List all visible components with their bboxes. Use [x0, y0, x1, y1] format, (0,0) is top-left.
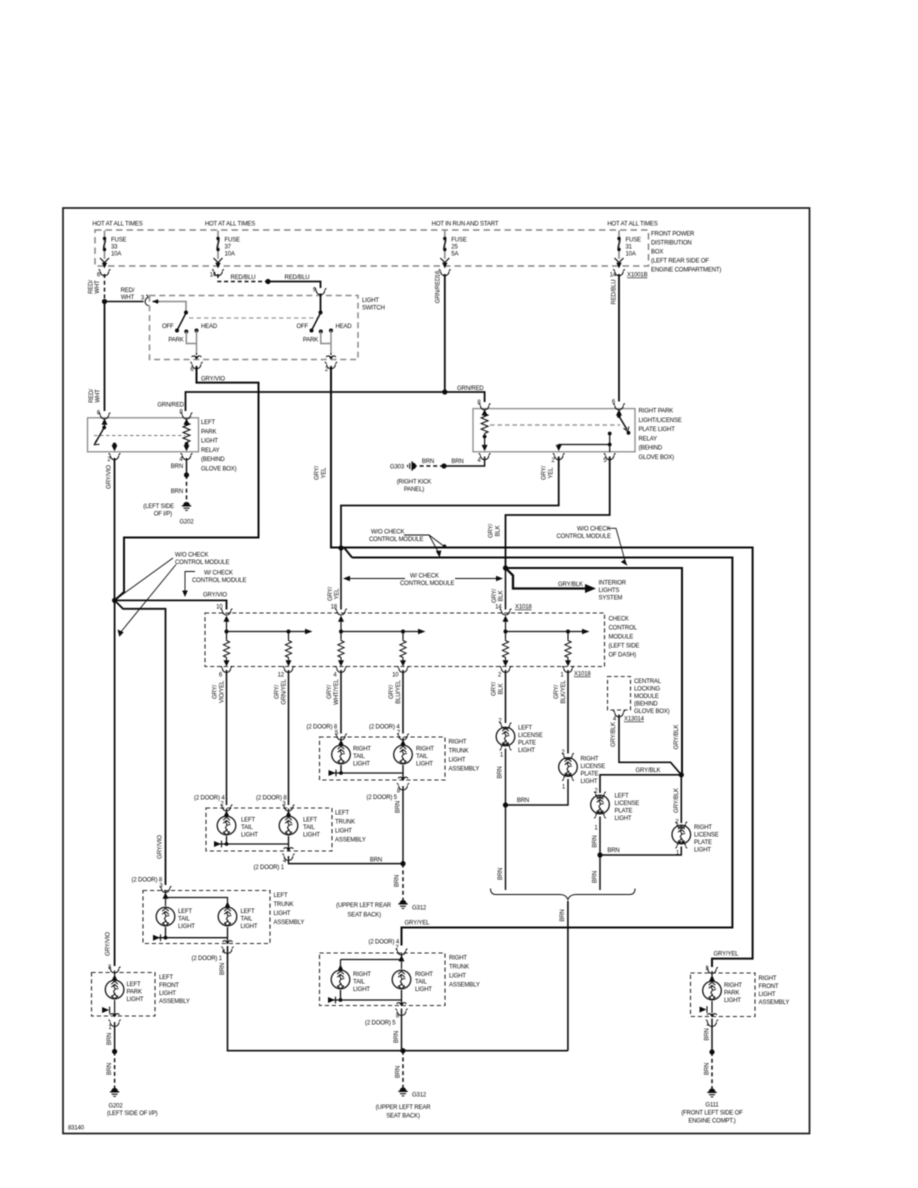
svg-text:GRY/BLK: GRY/BLK	[674, 788, 680, 813]
svg-text:FUSE: FUSE	[451, 238, 467, 244]
svg-text:(LEFT REAR SIDE OF: (LEFT REAR SIDE OF	[651, 259, 709, 265]
svg-text:TRUNK: TRUNK	[274, 902, 294, 908]
wire GRY/GRN/YEL column to left tail light	[288, 670, 290, 805]
wire GRY/VIO/YEL column to left tail light	[226, 670, 228, 805]
svg-text:RIGHT: RIGHT	[415, 972, 433, 978]
svg-text:BRN: BRN	[395, 875, 401, 887]
svg-text:LIGHT: LIGHT	[694, 848, 711, 854]
pin 10 check module	[216, 605, 232, 616]
svg-text:BRN: BRN	[422, 459, 434, 465]
pin 3 left trunk 2dr (2 DOOR 8)	[132, 878, 172, 893]
svg-text:G202: G202	[108, 1104, 123, 1110]
svg-text:TAIL: TAIL	[353, 754, 365, 760]
svg-text:G303: G303	[390, 465, 405, 471]
svg-text:(2 DOOR) 8: (2 DOOR) 8	[307, 725, 338, 731]
svg-text:TAIL: TAIL	[241, 917, 253, 923]
wire + horn joint left park	[102, 1000, 115, 1017]
svg-text:WHT: WHT	[95, 280, 101, 294]
svg-text:LIGHT: LIGHT	[759, 992, 776, 998]
svg-text:DISTRIBUTION: DISTRIBUTION	[651, 241, 692, 247]
left trunk light assembly (2-door)	[143, 891, 304, 944]
wire join right trunk bulbs	[329, 765, 404, 781]
svg-text:TAIL: TAIL	[416, 754, 428, 760]
svg-text:SYSTEM: SYSTEM	[599, 596, 623, 602]
pin 3 left trunk (2 DOOR 8)	[256, 796, 294, 812]
svg-text:PARK: PARK	[201, 429, 216, 435]
wire join left trunk bulbs	[214, 836, 289, 851]
svg-text:BRN: BRN	[107, 1063, 113, 1075]
wire GRY/BLK to left license light 2dr	[600, 768, 681, 793]
svg-text:BRN: BRN	[704, 1063, 710, 1075]
svg-text:GRN/RED: GRN/RED	[436, 276, 442, 303]
svg-text:GRY/: GRY/	[492, 682, 498, 696]
svg-text:GLOVE BOX): GLOVE BOX)	[634, 709, 670, 715]
svg-text:WHT: WHT	[121, 295, 135, 301]
svg-text:(LEFT SIDE: (LEFT SIDE	[609, 644, 640, 650]
svg-text:LIGHT: LIGHT	[415, 987, 432, 993]
svg-text:TAIL: TAIL	[178, 917, 190, 923]
ground G111 (front left side of engine compt)	[681, 1089, 743, 1125]
wire BRN from license junction to brace	[498, 805, 506, 890]
svg-text:TAIL: TAIL	[303, 825, 315, 831]
svg-text:GRY/VIO: GRY/VIO	[107, 465, 113, 489]
svg-text:YEL: YEL	[322, 467, 328, 479]
bulb right tail light (left)	[332, 738, 372, 768]
light switch box	[150, 296, 385, 360]
svg-text:RIGHT: RIGHT	[724, 983, 742, 989]
svg-text:MODULE: MODULE	[634, 694, 659, 700]
svg-text:GRN/RED: GRN/RED	[157, 403, 184, 409]
svg-text:RIGHT: RIGHT	[759, 976, 777, 982]
bulb left park light	[105, 971, 144, 1004]
wire BRN dashed to G312 upper	[395, 864, 404, 900]
wire GRY/VIO down to left front light	[106, 600, 164, 966]
wire BRN from license 2dr junction to brace	[593, 855, 601, 890]
svg-text:BRN: BRN	[607, 848, 619, 854]
svg-text:PLATE: PLATE	[615, 809, 633, 815]
svg-text:INTERIOR: INTERIOR	[599, 581, 627, 587]
svg-text:LEFT: LEFT	[201, 420, 216, 426]
svg-text:ASSEMBLY: ASSEMBLY	[449, 767, 480, 773]
right trunk light assembly (2-door)	[320, 953, 480, 1006]
svg-text:(UPPER LEFT REAR: (UPPER LEFT REAR	[376, 1105, 432, 1111]
svg-text:GRY/: GRY/	[327, 685, 333, 699]
svg-text:PARK: PARK	[303, 338, 318, 344]
pin 18 check module	[331, 605, 347, 616]
wire GRN/RED from fuse 25	[436, 274, 445, 392]
svg-text:CHECK: CHECK	[609, 617, 629, 623]
svg-text:LEFT: LEFT	[178, 909, 193, 915]
relay K2 right park light/license plate light relay	[473, 409, 682, 462]
svg-text:LEFT: LEFT	[615, 794, 630, 800]
svg-text:TRUNK: TRUNK	[335, 820, 355, 826]
pin 6 fusebox	[97, 269, 111, 278]
pin 6 light switch	[190, 356, 202, 373]
pin 7 right trunk 2dr (2 DOOR 4)	[369, 940, 408, 956]
svg-text:G312: G312	[412, 1093, 427, 1099]
svg-text:GRY/YEL: GRY/YEL	[405, 921, 431, 927]
node GRY/BLK junction right	[674, 724, 684, 777]
svg-text:LIGHT: LIGHT	[449, 758, 466, 764]
svg-text:LIGHT: LIGHT	[518, 748, 535, 754]
svg-text:W/O CHECK: W/O CHECK	[175, 553, 208, 559]
svg-text:31: 31	[626, 245, 633, 251]
svg-text:ASSEMBLY: ASSEMBLY	[759, 1000, 790, 1006]
svg-text:RELAY: RELAY	[201, 448, 220, 454]
svg-text:LIGHT: LIGHT	[724, 998, 741, 1004]
svg-text:GRY/: GRY/	[389, 685, 395, 699]
svg-text:GRN/YEL: GRN/YEL	[282, 679, 288, 705]
wire join left trunk 2dr bulbs	[153, 927, 228, 941]
svg-text:RIGHT: RIGHT	[353, 747, 371, 753]
bulb left tail light (right)	[279, 809, 320, 839]
label W/ CHECK CONTROL MODULE (left)	[182, 571, 246, 598]
svg-text:LIGHT: LIGHT	[353, 762, 370, 768]
svg-text:LIGHT: LIGHT	[353, 987, 370, 993]
wire RED/WHT down to left relay pin 6	[89, 302, 105, 412]
node junction RED/WHT	[102, 299, 107, 304]
svg-text:GRY/: GRY/	[489, 524, 495, 538]
svg-text:5A: 5A	[451, 252, 458, 258]
bulb right license plate light	[559, 757, 606, 786]
wire GRY/VIO from left relay pin 2 down	[107, 458, 115, 600]
svg-text:SEAT BACK): SEAT BACK)	[386, 1114, 420, 1120]
connector 1 left front light	[108, 1014, 120, 1031]
svg-text:GRY/: GRY/	[275, 685, 281, 699]
svg-text:10A: 10A	[626, 252, 636, 258]
svg-text:BRN: BRN	[171, 489, 183, 495]
svg-text:LIGHT: LIGHT	[274, 911, 291, 917]
wire BRN right relay pin 4 to G303	[416, 457, 485, 469]
pin 14 fusebox	[210, 269, 224, 278]
pin 6 check module bottom	[213, 666, 233, 703]
svg-text:LIGHT: LIGHT	[241, 833, 258, 839]
svg-text:FUSE: FUSE	[111, 238, 127, 244]
node GRY/YEL junction and W/O jog	[338, 545, 352, 557]
svg-text:BRN: BRN	[498, 868, 504, 880]
resistor in module (pin 6 column)	[223, 639, 229, 667]
svg-text:PLATE: PLATE	[518, 741, 536, 747]
right relay switch internals	[556, 409, 631, 452]
svg-text:LICENSE: LICENSE	[694, 833, 719, 839]
svg-text:HEAD: HEAD	[336, 324, 353, 330]
svg-text:LIGHT: LIGHT	[127, 997, 144, 1003]
svg-text:LIGHT: LIGHT	[416, 762, 433, 768]
svg-text:LIGHT: LIGHT	[178, 924, 195, 930]
label W/O CHECK CONTROL MODULE (left)	[116, 553, 230, 637]
pin 4 right relay	[477, 453, 490, 464]
check control module box	[205, 613, 639, 667]
fuse 37 10A	[214, 231, 241, 269]
svg-text:(UPPER LEFT REAR: (UPPER LEFT REAR	[336, 903, 392, 909]
wire GRY/BLK column to left license light	[505, 670, 507, 723]
svg-text:(RIGHT KICK: (RIGHT KICK	[397, 480, 432, 486]
pin 4 left relay	[179, 453, 192, 463]
svg-text:SWITCH: SWITCH	[362, 306, 385, 312]
svg-text:W/O CHECK: W/O CHECK	[371, 530, 404, 536]
ground G312 lower (upper left rear seat back)	[376, 1088, 432, 1120]
svg-text:GRY/VIO: GRY/VIO	[106, 932, 112, 956]
svg-text:(BEHIND: (BEHIND	[634, 702, 658, 708]
ground G312 (upper left rear seat back)	[336, 900, 427, 918]
resistor in module (pin 2 column)	[502, 639, 508, 667]
svg-text:BRN: BRN	[107, 1033, 113, 1045]
connector 8 right trunk 2dr (2 DOOR 5)	[365, 1003, 408, 1027]
pin 4 central locking X13014	[613, 711, 645, 723]
pin 3 light switch	[141, 295, 149, 306]
svg-text:PARK: PARK	[127, 990, 142, 996]
connector 8 right trunk (2 DOOR 5)	[366, 777, 409, 801]
node GRY/BLK junction	[503, 565, 508, 570]
svg-text:GRY/: GRY/	[492, 589, 498, 603]
pin 5 right relay	[603, 453, 615, 464]
relay K1 left park light relay	[88, 418, 237, 473]
svg-text:OF I/P): OF I/P)	[154, 512, 172, 518]
svg-text:RIGHT: RIGHT	[416, 747, 434, 753]
svg-text:(LEFT SIDE OF I/P): (LEFT SIDE OF I/P)	[107, 1111, 158, 1117]
bulb right tail light (right)	[394, 738, 435, 768]
svg-text:BLU/YEL: BLU/YEL	[396, 679, 402, 703]
svg-text:LEFT: LEFT	[335, 811, 350, 817]
svg-text:G111: G111	[705, 1103, 719, 1109]
svg-text:LOCKING: LOCKING	[634, 687, 660, 693]
svg-text:PANEL): PANEL)	[404, 487, 424, 493]
svg-text:LICENSE: LICENSE	[518, 733, 543, 739]
pin 7 right trunk (2 DOOR 4)	[369, 725, 409, 741]
label W/O CHECK CONTROL MODULE (middle)	[369, 530, 446, 558]
svg-text:(2 DOOR) 4: (2 DOOR) 4	[369, 725, 400, 731]
pin 6 right relay	[612, 400, 625, 410]
svg-text:BRN: BRN	[220, 963, 226, 975]
svg-text:RED/: RED/	[121, 288, 135, 294]
svg-text:BRN: BRN	[396, 1066, 402, 1078]
svg-text:PLATE LIGHT: PLATE LIGHT	[639, 427, 676, 433]
svg-text:(2 DOOR) 5: (2 DOOR) 5	[365, 1021, 396, 1027]
wire + horn joint right park	[700, 1001, 713, 1013]
wire bridge right trunk 2dr	[338, 953, 405, 971]
svg-text:RIGHT: RIGHT	[581, 757, 599, 763]
svg-text:OFF: OFF	[296, 324, 308, 330]
pin 2 right license	[561, 750, 574, 760]
svg-text:LIGHT: LIGHT	[615, 816, 632, 822]
wire GRY/BLK down to right license 2dr	[674, 775, 682, 823]
wire BRN right front to G111	[704, 1019, 714, 1089]
svg-text:TAIL: TAIL	[241, 825, 253, 831]
svg-text:TAIL: TAIL	[415, 980, 427, 986]
wire bridge left trunk 2dr	[166, 890, 228, 906]
wire GRY/VIO branch to left trunk light (2-door)	[115, 600, 166, 885]
wire GRY/WHT/YEL column to right tail light	[340, 670, 342, 734]
svg-text:HOT IN RUN AND START: HOT IN RUN AND START	[432, 222, 499, 228]
svg-text:WHT/YEL: WHT/YEL	[334, 678, 340, 704]
wire BRN right license 2dr to junction	[597, 847, 681, 858]
svg-text:ASSEMBLY: ASSEMBLY	[159, 999, 190, 1005]
wire GRN/RED horizontal to relays	[157, 386, 484, 411]
resistor in module (pin 4 column)	[338, 639, 344, 667]
svg-text:CONTROL MODULE: CONTROL MODULE	[175, 560, 229, 566]
svg-text:BLK: BLK	[499, 683, 505, 694]
svg-text:10: 10	[392, 673, 399, 679]
svg-text:83140: 83140	[68, 1126, 85, 1132]
wire GRY/BLK from check module pin 2 to left license light	[498, 719, 511, 730]
svg-text:SEAT BACK): SEAT BACK)	[347, 913, 381, 919]
svg-text:HOT AT ALL TIMES: HOT AT ALL TIMES	[205, 222, 255, 228]
svg-text:GRY/BLK: GRY/BLK	[558, 582, 583, 588]
wire BRN left front to G202	[107, 1022, 117, 1088]
node BRN junction at G312 lower	[400, 1048, 405, 1053]
wire BRN right trunk 2dr down	[394, 1009, 402, 1051]
svg-text:BRN: BRN	[394, 1031, 400, 1043]
wire join right trunk 2dr bulbs	[328, 990, 402, 1003]
ground G202 lower (left side of I/P)	[107, 1088, 158, 1117]
svg-text:OF DASH): OF DASH)	[609, 653, 637, 659]
pin 2 left trunk (2 DOOR 4)	[194, 796, 232, 812]
check module internal bus 3	[503, 616, 590, 640]
wire GRY/YEL down to check module pin 18	[328, 548, 341, 610]
svg-text:W/O CHECK: W/O CHECK	[577, 527, 610, 533]
resistor in module (pin 10 column)	[400, 639, 406, 667]
wire GRY/VIO from light switch pin 6 (big loop)	[115, 366, 259, 600]
svg-text:GRY/VIO: GRY/VIO	[203, 593, 227, 599]
svg-text:HOT AT ALL TIMES: HOT AT ALL TIMES	[607, 222, 657, 228]
svg-text:(2 DOOR) 8: (2 DOOR) 8	[132, 878, 163, 884]
svg-text:FRONT: FRONT	[759, 984, 779, 990]
right trunk light assembly (4-door)	[320, 737, 480, 780]
svg-text:LIGHT: LIGHT	[362, 298, 379, 304]
fuse 25 5A	[440, 231, 467, 269]
wire BRN left license 2dr down	[593, 817, 601, 856]
wire RED/WHT to light switch pin 3	[105, 288, 144, 302]
connector 1 right front light	[706, 1014, 718, 1028]
svg-text:PLATE: PLATE	[694, 840, 712, 846]
front power distribution box	[95, 230, 721, 274]
light switch left half	[153, 299, 218, 355]
svg-text:WHT: WHT	[96, 389, 102, 403]
svg-text:12: 12	[278, 673, 285, 679]
svg-text:BOX: BOX	[651, 250, 663, 256]
central locking module box	[608, 677, 670, 716]
wire BRN from left relay pin 4 to G202	[171, 458, 189, 502]
wire GRY/BLK from central locking to junction	[611, 715, 681, 775]
svg-text:BRN: BRN	[396, 801, 402, 813]
svg-text:BRN: BRN	[593, 835, 599, 847]
right front light assembly	[691, 973, 790, 1017]
wire GRY/BLK from right relay pin 5	[489, 457, 610, 569]
bulb right tail light 2dr (left)	[331, 970, 371, 993]
svg-text:LIGHT: LIGHT	[241, 924, 258, 930]
svg-text:LIGHT: LIGHT	[581, 779, 598, 785]
svg-text:RED/: RED/	[89, 280, 95, 294]
right relay coil internals	[481, 409, 488, 451]
svg-text:LEFT: LEFT	[127, 982, 142, 988]
svg-text:LEFT: LEFT	[159, 975, 174, 981]
wire GRY/BLK W/O-check line to license lights	[506, 568, 683, 775]
svg-text:BRN: BRN	[704, 1028, 710, 1040]
wire RED/WHT dashed from fuse 33	[89, 274, 105, 302]
svg-text:(2 DOOR) 1: (2 DOOR) 1	[253, 865, 284, 871]
svg-text:RIGHT PARK: RIGHT PARK	[639, 409, 674, 415]
pin 2 right relay	[551, 453, 564, 464]
svg-text:X1001B: X1001B	[627, 273, 648, 279]
svg-text:LIGHT: LIGHT	[201, 439, 218, 445]
left relay switch internals	[94, 419, 117, 452]
svg-text:BRN: BRN	[370, 858, 382, 864]
wire GRY/YEL from right relay pin 2	[341, 457, 559, 549]
svg-text:GRY/VIO: GRY/VIO	[201, 377, 225, 383]
svg-text:10A: 10A	[225, 252, 235, 258]
svg-text:GRY/BLK: GRY/BLK	[636, 768, 661, 774]
svg-text:TRUNK: TRUNK	[449, 965, 469, 971]
svg-text:ASSEMBLY: ASSEMBLY	[274, 920, 305, 926]
wire BRN right license to junction	[503, 779, 568, 808]
svg-text:RIGHT: RIGHT	[449, 740, 467, 746]
svg-text:BRN: BRN	[451, 459, 463, 465]
bulb left license plate light 2dr	[591, 789, 640, 823]
svg-text:LIGHT: LIGHT	[303, 833, 320, 839]
wire GRY/YEL W/O-check line upper	[344, 548, 753, 968]
label W/ CHECK CONTROL MODULE (middle, double arrow)	[343, 574, 503, 588]
svg-text:BRN: BRN	[517, 798, 529, 804]
svg-text:(2 DOOR) 5: (2 DOOR) 5	[366, 795, 397, 801]
svg-text:(BEHIND: (BEHIND	[639, 446, 663, 452]
wire BRN right trunk down	[396, 786, 404, 864]
svg-text:GRN/RED: GRN/RED	[457, 386, 484, 392]
svg-text:MODULE: MODULE	[609, 635, 634, 641]
light switch right half	[296, 294, 352, 356]
svg-text:ENGINE COMPT.): ENGINE COMPT.)	[688, 1119, 735, 1125]
svg-text:BRN: BRN	[171, 464, 183, 470]
bulb right tail light 2dr (right)	[392, 970, 433, 993]
wire BRN left trunk 2dr down to bus	[220, 946, 568, 1051]
pin 5 right trunk (2 DOOR 8)	[307, 725, 347, 741]
svg-text:FRONT POWER: FRONT POWER	[651, 232, 695, 238]
svg-text:ASSEMBLY: ASSEMBLY	[335, 838, 366, 844]
svg-text:37: 37	[225, 245, 232, 251]
svg-text:GRY/BLK: GRY/BLK	[674, 724, 680, 749]
pin 10 check module bottom	[389, 666, 409, 704]
svg-text:GRY/: GRY/	[315, 466, 321, 480]
svg-text:RIGHT: RIGHT	[449, 956, 467, 962]
svg-text:PARK: PARK	[724, 991, 739, 997]
svg-text:GRY/BLK: GRY/BLK	[611, 722, 617, 747]
svg-text:YEL: YEL	[549, 467, 555, 479]
bulb left license plate light	[496, 726, 543, 755]
pin 2 light switch	[325, 356, 337, 373]
pin 8 right relay	[477, 400, 490, 410]
svg-text:10A: 10A	[111, 252, 121, 258]
bulb right license plate light 2dr	[672, 820, 719, 854]
svg-text:LEFT: LEFT	[241, 909, 256, 915]
svg-text:YEL: YEL	[335, 588, 341, 600]
check module internal bus 2	[338, 616, 426, 640]
wire RED/BLU from fuse 37 to light switch pin 9	[218, 274, 321, 288]
pin 6 left relay	[97, 411, 111, 419]
svg-text:BLK: BLK	[496, 525, 502, 536]
svg-text:PARK: PARK	[168, 338, 183, 344]
svg-text:GLOVE BOX): GLOVE BOX)	[639, 455, 675, 461]
border frame	[63, 208, 810, 1134]
wire GRY/YEL from light switch pin 2	[315, 366, 345, 548]
svg-text:(BEHIND: (BEHIND	[201, 457, 225, 463]
svg-text:RED/BLU: RED/BLU	[612, 280, 618, 305]
svg-text:CENTRAL: CENTRAL	[634, 679, 662, 685]
svg-text:VIO/YEL: VIO/YEL	[220, 680, 226, 703]
svg-text:LEFT: LEFT	[241, 818, 256, 824]
svg-text:GRY/: GRY/	[213, 685, 219, 699]
wire BRN dashed to G312 lower	[396, 1051, 404, 1088]
svg-text:X1018: X1018	[515, 605, 532, 611]
connector 4 left trunk 2dr (2 DOOR 1)	[191, 941, 233, 962]
